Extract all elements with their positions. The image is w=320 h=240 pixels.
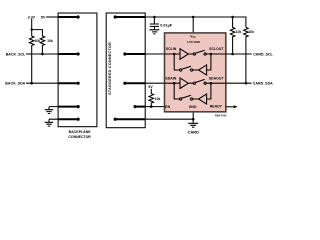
svg-text:SDAOUT: SDAOUT xyxy=(209,76,225,80)
svg-text:LTC4306: LTC4306 xyxy=(187,40,200,44)
svg-text:10k: 10k xyxy=(155,97,161,101)
svg-text:SCLOUT: SCLOUT xyxy=(209,47,224,51)
svg-text:CONNECTOR: CONNECTOR xyxy=(68,135,91,139)
svg-text:STAGGERED CONNECTOR: STAGGERED CONNECTOR xyxy=(108,42,112,95)
svg-text:5V: 5V xyxy=(148,85,153,89)
svg-text:BACK_SCL: BACK_SCL xyxy=(6,52,26,56)
svg-text:4306 TA01: 4306 TA01 xyxy=(215,115,227,118)
svg-text:10k: 10k xyxy=(236,30,242,34)
svg-text:EN: EN xyxy=(165,105,170,109)
svg-text:10k: 10k xyxy=(35,39,41,43)
svg-text:3.3V: 3.3V xyxy=(28,15,36,19)
svg-text:CARD_SCL: CARD_SCL xyxy=(253,52,273,56)
svg-text:GND: GND xyxy=(189,105,197,109)
svg-text:5V: 5V xyxy=(41,15,46,19)
svg-text:BACK_SDA: BACK_SDA xyxy=(5,82,25,86)
svg-text:CARD: CARD xyxy=(188,130,199,135)
svg-text:BACKPLANE: BACKPLANE xyxy=(69,130,92,134)
svg-text:0.01µF: 0.01µF xyxy=(160,23,173,27)
svg-text:READY: READY xyxy=(210,105,223,109)
svg-text:CARD_SDA: CARD_SDA xyxy=(253,82,273,86)
svg-text:10k: 10k xyxy=(248,30,254,34)
svg-text:SCLIN: SCLIN xyxy=(166,47,177,51)
svg-text:SDAIN: SDAIN xyxy=(165,76,176,80)
svg-text:10k: 10k xyxy=(47,39,53,43)
